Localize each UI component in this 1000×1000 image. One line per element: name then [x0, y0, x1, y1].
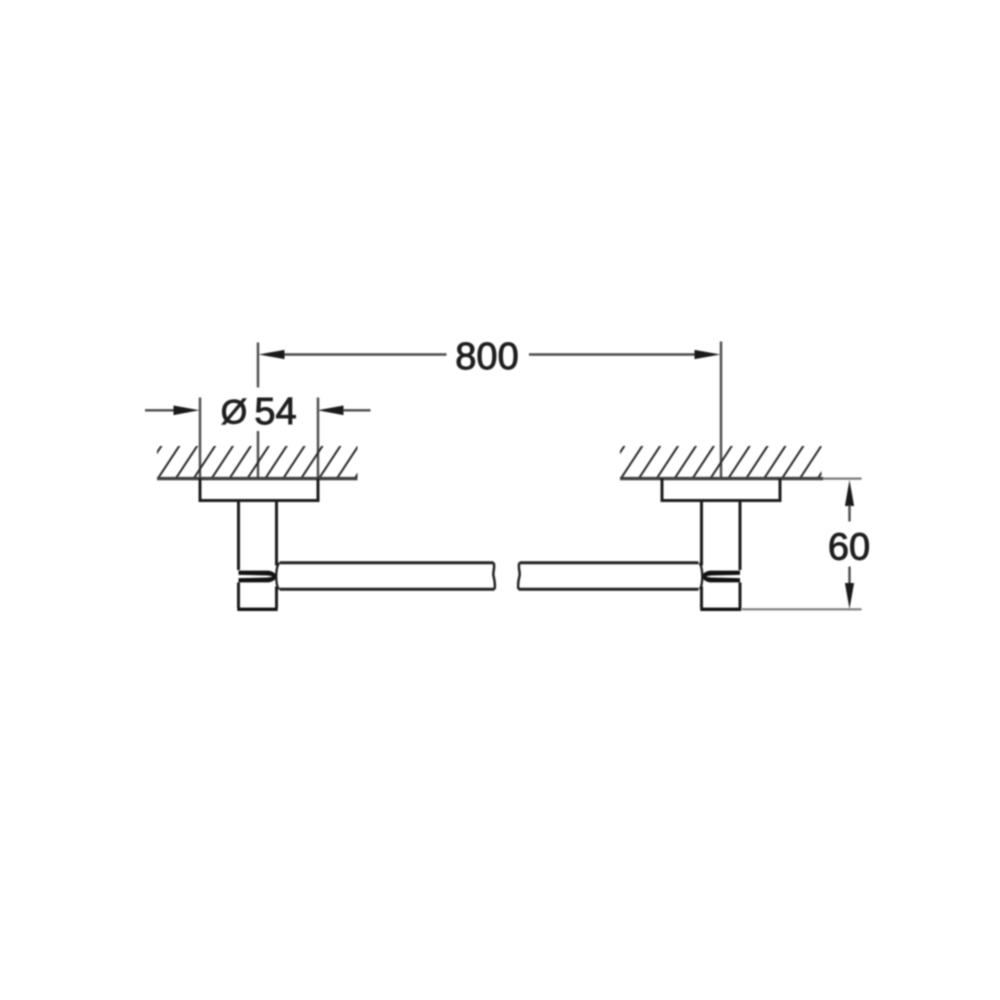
bar right segment top edge [520, 561, 699, 564]
dimension 60 top arrow [845, 480, 854, 506]
right groove dark band [702, 571, 740, 583]
bar left segment top edge [280, 561, 494, 564]
dimension 60 upper line [848, 505, 850, 522]
extension line D54 left (x=200) [199, 398, 201, 479]
extension line right center (x=721) [720, 342, 722, 478]
left cap bottom [237, 608, 277, 611]
right groove white gap [706, 575, 740, 578]
left wall line [157, 477, 358, 480]
left flange [200, 479, 318, 501]
dimension D54 right arrow [318, 406, 344, 416]
bar left segment bottom edge [280, 588, 495, 591]
right post body [739, 501, 742, 571]
bar right break line [518, 563, 520, 590]
extension line D54 right (x=318) [317, 398, 319, 479]
left wall hatch [139, 445, 377, 480]
dimension D54 right tail [343, 409, 371, 411]
dimension 800 left arrow [259, 350, 285, 359]
dimension 800 line left segment [284, 353, 447, 355]
left post body [237, 501, 240, 571]
left post cap [239, 583, 277, 609]
left groove white gap [239, 575, 273, 578]
dimension 60 lower line [848, 567, 850, 586]
extension line left center (x=258) upper [257, 343, 259, 388]
dimension 60 bottom extension line [742, 608, 862, 610]
extension line left center (x=258) lower [257, 431, 259, 477]
dimension 60 bottom arrow [845, 583, 854, 609]
right wall line [620, 477, 823, 480]
svg-text:54: 54 [254, 391, 296, 433]
svg-text:60: 60 [828, 527, 870, 569]
left bar-post transition curve [276, 563, 279, 589]
right wall hatch [602, 445, 840, 480]
dimension 800 right arrow [695, 350, 721, 359]
right cap bottom [700, 608, 741, 611]
dimension D54 left tail [145, 409, 174, 411]
dimension D54 left arrow [174, 406, 200, 416]
right flange [662, 479, 780, 501]
right post cap [702, 583, 741, 609]
bar right segment bottom edge [519, 588, 699, 591]
bar left break line [493, 563, 495, 590]
right wall line extension to 60-dim [823, 478, 862, 480]
dimension 800 line right segment [529, 353, 695, 355]
svg-text:800: 800 [455, 336, 518, 378]
left groove dark band [239, 571, 277, 583]
svg-text:Ø: Ø [221, 394, 247, 432]
right bar-post transition curve [700, 563, 703, 589]
